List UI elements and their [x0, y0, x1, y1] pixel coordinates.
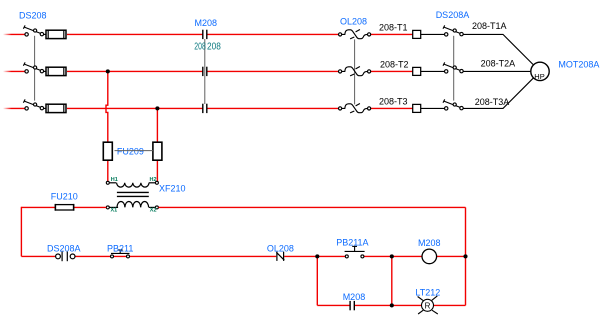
svg-text:M208: M208 [418, 238, 441, 248]
svg-text:X2: X2 [150, 207, 157, 213]
svg-text:208-T2A: 208-T2A [481, 59, 516, 69]
svg-text:M208: M208 [195, 18, 218, 28]
svg-text:R: R [425, 302, 431, 311]
svg-text:208-T1: 208-T1 [379, 22, 408, 32]
svg-text:H2: H2 [150, 177, 157, 183]
svg-text:XF210: XF210 [159, 183, 186, 193]
svg-text:PB211: PB211 [107, 243, 133, 253]
svg-text:MOT208A: MOT208A [558, 59, 599, 69]
svg-text:OL208: OL208 [340, 17, 367, 27]
svg-text:OL208: OL208 [267, 243, 294, 253]
svg-text:X1: X1 [111, 207, 118, 213]
svg-text:H1: H1 [111, 177, 118, 183]
svg-text:208: 208 [194, 41, 206, 52]
svg-text:DS208A: DS208A [436, 10, 470, 20]
svg-text:DS208A: DS208A [47, 243, 81, 253]
svg-text:DS208: DS208 [19, 10, 47, 20]
svg-text:HP: HP [534, 72, 544, 81]
svg-text:M208: M208 [343, 292, 366, 302]
svg-text:FU209: FU209 [117, 147, 144, 157]
svg-text:FU210: FU210 [51, 191, 78, 201]
svg-text:208: 208 [207, 41, 221, 52]
svg-text:208-T2: 208-T2 [380, 59, 409, 69]
svg-text:PB211A: PB211A [336, 238, 368, 248]
svg-text:208-T3: 208-T3 [379, 96, 408, 106]
svg-text:208-T1A: 208-T1A [472, 21, 507, 31]
svg-text:208-T3A: 208-T3A [475, 97, 510, 107]
svg-text:LT212: LT212 [415, 287, 440, 297]
